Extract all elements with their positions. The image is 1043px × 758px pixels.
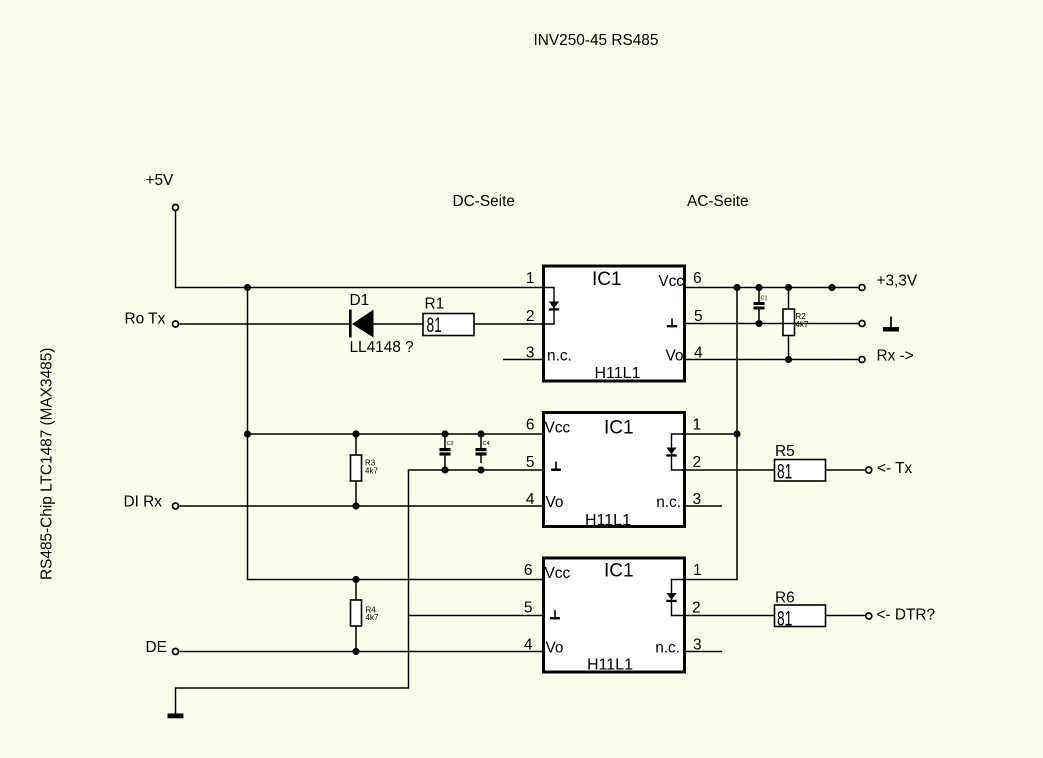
wire middle IC pin5 ground run to bottom-left ground (176, 470, 543, 714)
terminal Ro Tx (173, 321, 179, 327)
wire R3 bottom lead (355, 481, 357, 506)
svg-text:6: 6 (693, 270, 702, 287)
terminal DTR (866, 613, 872, 619)
wire DI Rx line to middle IC Vo (180, 505, 543, 507)
wire bottom IC pin5 to ground run (409, 615, 543, 617)
svg-text:DE: DE (146, 639, 167, 656)
junction C4 top / middle Vcc line (477, 430, 484, 437)
ground AC side (883, 317, 899, 332)
junction R4 bottom / DE line (352, 648, 359, 655)
wire middle IC pin1 (686, 433, 737, 435)
junction +3,3V bus / top Vcc line (733, 284, 740, 291)
svg-text:<- Tx: <- Tx (877, 460, 913, 477)
svg-text:1: 1 (693, 417, 702, 434)
wire C4 leads (480, 434, 482, 463)
svg-text:R5: R5 (775, 443, 795, 460)
svg-text:2: 2 (526, 308, 535, 325)
svg-text:R6: R6 (775, 590, 795, 607)
svg-text:4k7: 4k7 (366, 613, 379, 622)
terminal +3,3V (859, 285, 865, 291)
svg-text:4k7: 4k7 (365, 467, 378, 476)
junction on top Vcc line near terminal (828, 284, 835, 291)
wire top IC pin4 Vo to Rx terminal (686, 359, 858, 361)
svg-text:AC-Seite: AC-Seite (687, 193, 749, 210)
wire top IC pin5 ground line to terminal (crosses over R2) (686, 323, 858, 325)
wire middle IC Vcc line (248, 433, 543, 435)
svg-text:IC1: IC1 (604, 561, 634, 582)
resistor R4 (351, 600, 362, 626)
svg-text:4: 4 (524, 636, 533, 653)
capacitor C4 (476, 448, 487, 456)
svg-text:RS485-Chip LTC1487 (MAX3485): RS485-Chip LTC1487 (MAX3485) (39, 348, 56, 580)
resistor R1 (423, 314, 474, 336)
svg-text:n.c.: n.c. (547, 348, 572, 365)
svg-text:C4: C4 (483, 441, 490, 447)
wire D1 to R1 (374, 323, 424, 325)
junction C4 bottom / middle pin5 line (477, 466, 484, 473)
svg-text:Vo: Vo (546, 640, 564, 657)
wire R1 to pin2 of top IC (474, 323, 542, 325)
svg-text:Rx ->: Rx -> (877, 348, 914, 365)
wire R2 leads (788, 288, 790, 360)
svg-text:5: 5 (694, 308, 703, 325)
svg-text:6: 6 (524, 562, 533, 579)
svg-text:H11L1: H11L1 (587, 657, 633, 674)
svg-text:2: 2 (692, 599, 701, 616)
ground bottom-left (168, 714, 184, 719)
wire bottom IC pin2 to R6 (686, 615, 775, 617)
svg-text:INV250-45 RS485: INV250-45 RS485 (534, 32, 659, 49)
wire middle IC pin3 n.c. stub (686, 505, 722, 507)
terminal Tx (866, 467, 872, 473)
terminal DI Rx (173, 503, 179, 509)
junction C2 bottom / middle pin5 line (441, 466, 448, 473)
wire R4 top lead (355, 580, 357, 601)
svg-text:n.c.: n.c. (655, 640, 680, 657)
wire top IC Vcc pin6 to +3,3V terminal (686, 287, 858, 289)
svg-text:Vcc: Vcc (545, 565, 571, 582)
junction R2 bottom / top Vo line (785, 356, 792, 363)
junction C1 bottom / top pin5 line (755, 320, 762, 327)
svg-text:Vcc: Vcc (545, 420, 571, 437)
svg-text:5: 5 (524, 599, 533, 616)
svg-text:LL4148 ?: LL4148 ? (350, 339, 414, 356)
svg-text:C1: C1 (761, 295, 768, 301)
junction +5V bus / middle Vcc line (244, 430, 251, 437)
labels of middle IC1 (545, 418, 682, 530)
svg-text:3: 3 (693, 636, 702, 653)
svg-text:5: 5 (526, 454, 535, 471)
resistor R6 (775, 605, 826, 627)
svg-text:3: 3 (526, 344, 535, 361)
svg-text:C2: C2 (447, 441, 454, 447)
svg-text:n.c.: n.c. (656, 494, 681, 511)
svg-text:6: 6 (526, 417, 535, 434)
svg-text:H11L1: H11L1 (585, 512, 631, 529)
svg-text:IC1: IC1 (604, 418, 634, 439)
resistor R5 (775, 460, 826, 482)
wire C2 leads (444, 434, 446, 470)
pin numbers of top IC1 (526, 270, 703, 361)
wire R3 top lead (355, 434, 357, 455)
svg-text:81: 81 (777, 607, 792, 630)
svg-text:DI Rx: DI Rx (124, 494, 163, 511)
junction +3,3V bus / middle pin1 line (733, 430, 740, 437)
terminal AC ground (859, 321, 865, 327)
wire R4 bottom lead (355, 626, 357, 652)
svg-text:1: 1 (693, 562, 702, 579)
wire R5 to Tx terminal (826, 469, 866, 471)
svg-text:Vo: Vo (666, 348, 684, 365)
diode D1 LL4148 (349, 310, 374, 338)
wire +5V bus vertical to bottom IC Vcc (248, 288, 543, 580)
svg-text:Vcc: Vcc (658, 273, 684, 290)
svg-text:3: 3 (693, 491, 702, 508)
capacitor C1 (754, 302, 765, 310)
svg-text:IC1: IC1 (592, 269, 622, 290)
wire top IC pin3 n.c. stub (503, 359, 542, 361)
optocoupler IC1 bottom H11L1 (544, 558, 687, 672)
pin numbers of middle IC1 (526, 417, 701, 508)
svg-text:Ro Tx: Ro Tx (125, 311, 166, 328)
terminal Rx (859, 357, 865, 363)
capacitor C2 (440, 448, 451, 456)
svg-text:4k7: 4k7 (796, 320, 809, 329)
junction C2 top / middle Vcc line (441, 430, 448, 437)
svg-text:+3,3V: +3,3V (877, 273, 918, 290)
svg-text:1: 1 (526, 270, 535, 287)
svg-text:4: 4 (694, 344, 703, 361)
junction R2 top / top Vcc line (785, 284, 792, 291)
labels of top IC1 (547, 269, 684, 382)
junction R3 top / middle Vcc line (352, 430, 359, 437)
resistor R3 (351, 455, 362, 481)
svg-text:H11L1: H11L1 (595, 365, 641, 382)
pin numbers of bottom IC1 (524, 562, 702, 653)
wire bottom IC pin3 n.c. stub (686, 651, 722, 653)
svg-text:Vo: Vo (546, 494, 564, 511)
svg-text:+5V: +5V (146, 172, 175, 189)
junction R4 top / bottom Vcc line (352, 576, 359, 583)
optocoupler IC1 top H11L1 (542, 266, 685, 381)
optocoupler IC1 middle H11L1 (544, 413, 687, 527)
terminal +5V (173, 205, 179, 211)
resistor R2 (783, 309, 795, 336)
wire middle IC pin2 to R5 (686, 469, 775, 471)
svg-text:D1: D1 (350, 292, 370, 309)
wire R6 to DTR terminal (826, 615, 866, 617)
junction +5V bus / pin1 line (244, 284, 251, 291)
labels of bottom IC1 (545, 561, 681, 674)
svg-text:DC-Seite: DC-Seite (453, 193, 515, 210)
terminal DE (173, 649, 179, 655)
svg-text:81: 81 (427, 314, 442, 337)
junction C1 top / top Vcc line (755, 284, 762, 291)
svg-text:R1: R1 (425, 296, 445, 313)
svg-text:81: 81 (777, 460, 792, 483)
wire DE line to bottom IC Vo (180, 651, 543, 653)
junction R3 bottom / DI Rx line (352, 502, 359, 509)
svg-text:2: 2 (693, 454, 702, 471)
svg-text:<- DTR?: <- DTR? (877, 606, 936, 623)
svg-text:4: 4 (526, 491, 535, 508)
wire Ro Tx terminal to diode D1 (180, 323, 350, 325)
wire +5V terminal to pin1 of top IC1 (176, 212, 543, 288)
wire C1 leads (758, 288, 760, 324)
wire +3,3V bus down to middle and bottom IC pin1 (686, 288, 737, 580)
